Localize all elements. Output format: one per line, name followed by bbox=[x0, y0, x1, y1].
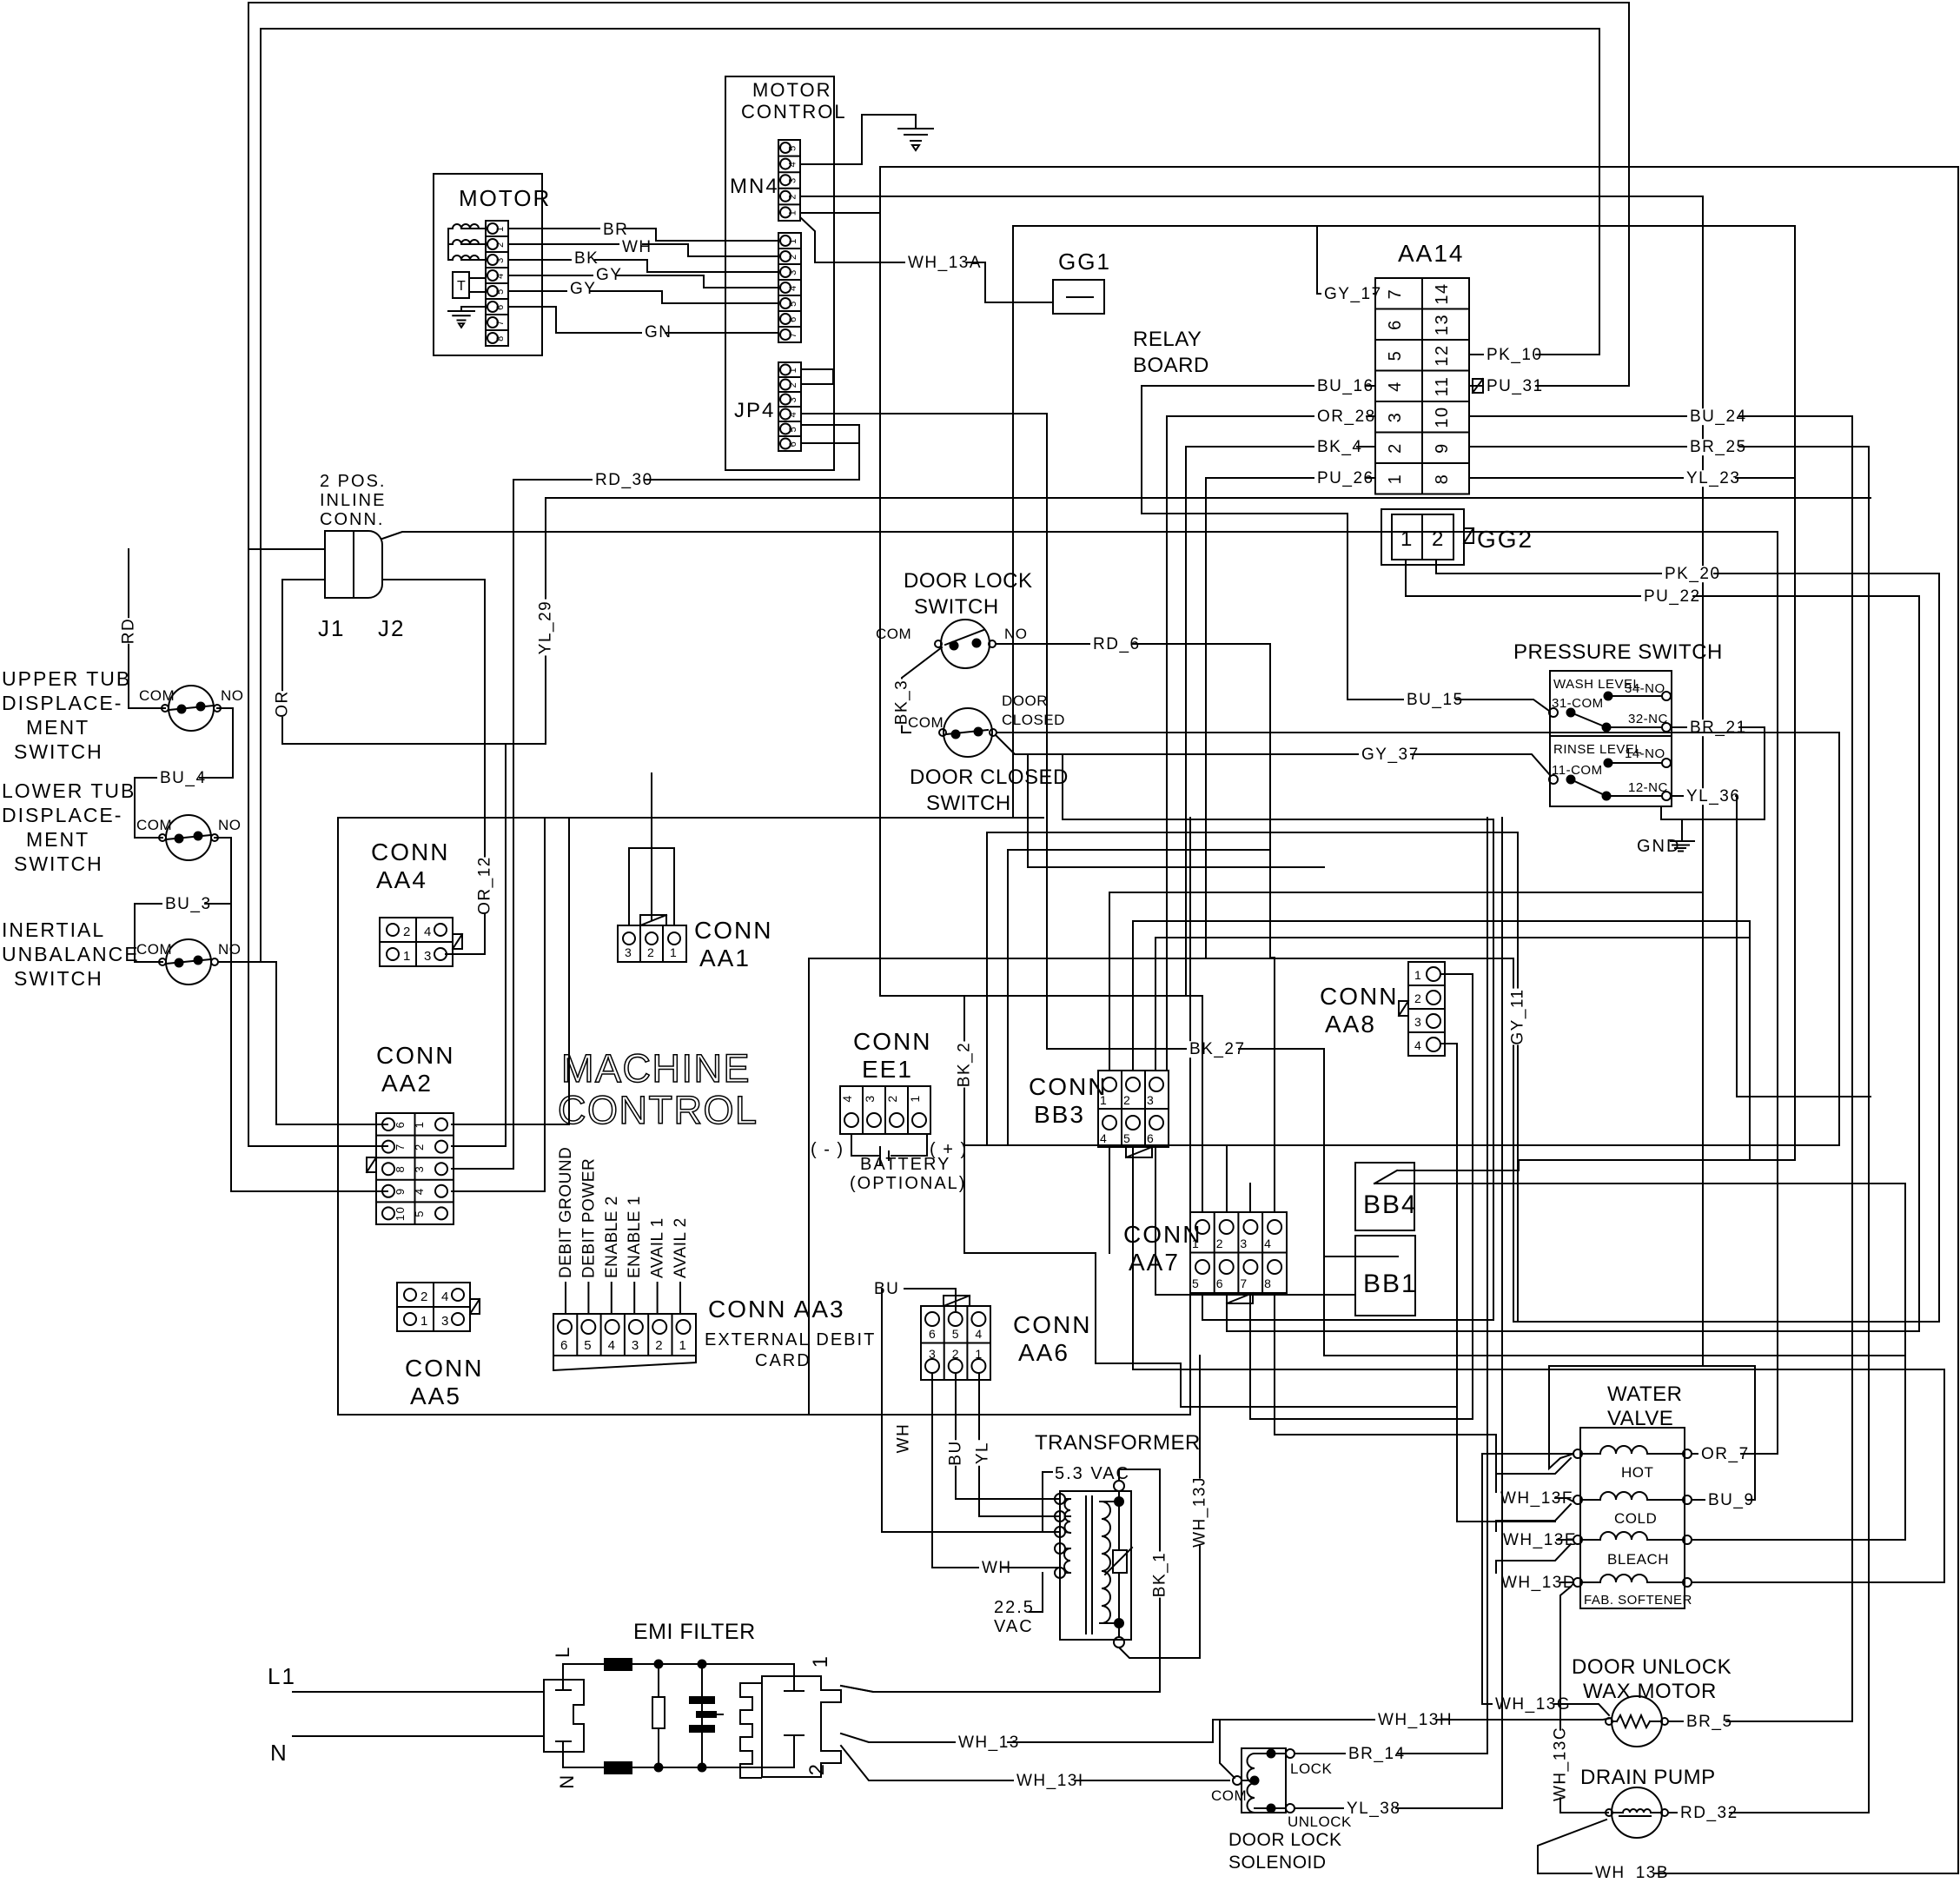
svg-text:BB1: BB1 bbox=[1363, 1270, 1418, 1298]
connector AA5 bbox=[397, 1283, 470, 1331]
svg-text:1: 1 bbox=[788, 237, 798, 244]
svg-text:RD_6: RD_6 bbox=[1093, 635, 1141, 653]
wire WH_13I out2 lower bbox=[841, 1746, 1229, 1780]
svg-text:4: 4 bbox=[1414, 1038, 1422, 1052]
svg-text:(OPTIONAL): (OPTIONAL) bbox=[850, 1174, 966, 1193]
drain pump bbox=[1612, 1787, 1662, 1838]
svg-text:31-COM: 31-COM bbox=[1552, 696, 1604, 711]
connector AA7 bbox=[1190, 1212, 1287, 1293]
svg-text:MENT: MENT bbox=[26, 828, 89, 851]
svg-text:CARD: CARD bbox=[755, 1351, 811, 1370]
svg-text:INLINE: INLINE bbox=[320, 491, 386, 510]
svg-text:4: 4 bbox=[441, 1290, 450, 1304]
svg-text:PU_26: PU_26 bbox=[1317, 469, 1374, 487]
transformer box bbox=[1060, 1491, 1131, 1640]
svg-text:MENT: MENT bbox=[26, 716, 89, 739]
svg-text:ENABLE 1: ENABLE 1 bbox=[626, 1196, 644, 1278]
svg-text:MOTOR: MOTOR bbox=[459, 185, 551, 211]
svg-text:1: 1 bbox=[788, 367, 798, 374]
wire WH_13 out2 bbox=[841, 1720, 1213, 1742]
motor thermal protector T bbox=[453, 272, 469, 298]
wire GY_17 AA14 pin7 bbox=[1013, 226, 1375, 818]
water valve hot coil bbox=[1573, 1449, 1582, 1458]
svg-text:SWITCH: SWITCH bbox=[14, 852, 103, 875]
wire H1103 left branch bbox=[809, 958, 1206, 1415]
svg-text:2: 2 bbox=[1216, 1237, 1224, 1250]
svg-text:RD_30: RD_30 bbox=[595, 471, 653, 489]
transformer primary coils bbox=[1065, 1499, 1071, 1533]
svg-text:22.5: 22.5 bbox=[994, 1598, 1035, 1617]
svg-text:7: 7 bbox=[788, 331, 798, 338]
svg-text:14: 14 bbox=[1433, 282, 1452, 304]
wire WH to transformer pin3 bbox=[882, 1289, 1060, 1532]
svg-text:1: 1 bbox=[1192, 1237, 1200, 1250]
svg-text:4: 4 bbox=[424, 925, 433, 939]
svg-text:DISPLACE-: DISPLACE- bbox=[2, 692, 122, 714]
svg-text:4: 4 bbox=[975, 1327, 983, 1341]
motor control box bbox=[725, 76, 834, 470]
svg-text:2: 2 bbox=[655, 1338, 664, 1353]
wire H1146 to AA7 pin1 bbox=[964, 996, 1202, 1212]
svg-text:3: 3 bbox=[1147, 1093, 1155, 1107]
svg-text:OR_12: OR_12 bbox=[475, 856, 493, 915]
machine control board box bbox=[338, 818, 1190, 1415]
svg-text:2: 2 bbox=[647, 945, 655, 959]
svg-text:3: 3 bbox=[413, 1165, 426, 1173]
wire GY_37 door closed to 11-COM bbox=[997, 736, 1551, 776]
svg-text:OR_28: OR_28 bbox=[1317, 408, 1376, 426]
svg-text:14-NO: 14-NO bbox=[1625, 746, 1665, 761]
wire BB4 right bus bbox=[1374, 1183, 1905, 1184]
svg-text:BU_4: BU_4 bbox=[160, 769, 207, 787]
svg-text:BU_15: BU_15 bbox=[1407, 691, 1464, 709]
svg-text:LOWER TUB: LOWER TUB bbox=[2, 779, 136, 802]
wire MN4 pin2 long bbox=[800, 196, 1703, 1366]
svg-text:L1: L1 bbox=[268, 1663, 296, 1689]
svg-text:BK_4: BK_4 bbox=[1317, 438, 1362, 456]
transformer secondary coil bbox=[1102, 1502, 1110, 1623]
svg-text:5: 5 bbox=[1386, 350, 1405, 361]
svg-text:GG1: GG1 bbox=[1058, 249, 1111, 275]
svg-text:1: 1 bbox=[1386, 474, 1405, 485]
svg-text:EMI FILTER: EMI FILTER bbox=[633, 1620, 756, 1644]
svg-text:PRESSURE SWITCH: PRESSURE SWITCH bbox=[1513, 640, 1723, 664]
component GG1 box bbox=[1053, 280, 1104, 314]
door closed switch bbox=[944, 708, 992, 757]
svg-text:J1: J1 bbox=[318, 615, 345, 641]
transformer varistor bbox=[1113, 1550, 1127, 1573]
wire BU AA6 pin2 to transformer bbox=[956, 1373, 1060, 1499]
solenoid coil bbox=[1248, 1754, 1255, 1813]
wire J2 lower to OR_12 riser bbox=[382, 580, 485, 954]
wire BU bracket to AA6 pin5 bbox=[904, 1289, 956, 1312]
EMI input connector bbox=[544, 1680, 584, 1752]
svg-text:SWITCH: SWITCH bbox=[14, 740, 103, 763]
wire YL_29 bus right bbox=[546, 497, 1871, 499]
wire WH_13A MN4 pin1 to GG1 bbox=[800, 217, 1053, 302]
svg-text:2: 2 bbox=[1123, 1093, 1131, 1107]
svg-text:GY: GY bbox=[570, 280, 596, 298]
svg-text:3: 3 bbox=[1240, 1237, 1248, 1250]
svg-text:UPPER TUB: UPPER TUB bbox=[2, 667, 131, 690]
connector BB3 bbox=[1098, 1071, 1169, 1147]
svg-text:WH_13H: WH_13H bbox=[1378, 1711, 1453, 1729]
svg-text:7: 7 bbox=[394, 1143, 407, 1150]
svg-text:COM: COM bbox=[139, 687, 175, 704]
svg-text:CLOSED: CLOSED bbox=[1002, 712, 1065, 728]
svg-text:OR_7: OR_7 bbox=[1701, 1445, 1750, 1463]
svg-text:DEBIT POWER: DEBIT POWER bbox=[579, 1158, 598, 1278]
svg-text:3: 3 bbox=[625, 945, 632, 959]
svg-text:3: 3 bbox=[424, 949, 433, 964]
svg-text:GY: GY bbox=[596, 266, 622, 284]
wire BR_5 label bbox=[1684, 1714, 1725, 1730]
svg-text:5: 5 bbox=[413, 1210, 426, 1217]
svg-text:3: 3 bbox=[632, 1338, 640, 1353]
svg-text:12: 12 bbox=[1433, 344, 1452, 366]
connector EE1 bbox=[840, 1086, 930, 1134]
svg-text:9: 9 bbox=[1433, 442, 1452, 454]
wire BK_1 bbox=[841, 1469, 1160, 1692]
wire JP4 pin4 to BK_27 chain bbox=[801, 414, 1047, 1049]
svg-text:4: 4 bbox=[495, 272, 506, 279]
svg-text:34-NO: 34-NO bbox=[1625, 681, 1665, 696]
svg-text:LOCK: LOCK bbox=[1290, 1760, 1332, 1777]
svg-text:3: 3 bbox=[863, 1094, 877, 1102]
connector AA8 bbox=[1408, 962, 1445, 1056]
wire MN4 pin4 to chassis ground bbox=[800, 115, 916, 164]
wire YL_36 from 12-NC bbox=[1671, 796, 1871, 1097]
svg-text:4: 4 bbox=[840, 1094, 854, 1102]
wire OR_28 AA14 pin3 bbox=[1167, 416, 1375, 1071]
svg-text:MOTOR: MOTOR bbox=[752, 79, 831, 101]
svg-text:OR: OR bbox=[273, 690, 291, 718]
svg-text:1: 1 bbox=[679, 1338, 688, 1353]
svg-text:DOOR UNLOCK: DOOR UNLOCK bbox=[1572, 1655, 1732, 1679]
wire GN motor pin6 bbox=[508, 307, 778, 333]
transformer secondary terminals bbox=[1115, 1497, 1123, 1506]
wax motor bbox=[1612, 1696, 1662, 1747]
svg-text:2: 2 bbox=[1386, 442, 1405, 454]
wire BK_2 bbox=[880, 996, 1181, 1407]
svg-text:WATER: WATER bbox=[1607, 1382, 1683, 1406]
motor box bbox=[434, 174, 542, 355]
svg-text:AA1: AA1 bbox=[699, 945, 751, 971]
svg-text:WH: WH bbox=[894, 1423, 912, 1454]
wire fab softener WH_13D stub bbox=[1555, 1581, 1573, 1583]
svg-text:N: N bbox=[556, 1774, 578, 1788]
inductor N black bar bbox=[605, 1762, 632, 1774]
svg-text:BB3: BB3 bbox=[1034, 1101, 1085, 1128]
wire WH_13H branch to solenoid COM bbox=[1220, 1720, 1235, 1778]
svg-text:BK: BK bbox=[574, 249, 599, 268]
svg-text:AA7: AA7 bbox=[1129, 1249, 1180, 1276]
door lock solenoid box bbox=[1242, 1748, 1286, 1813]
svg-text:AA4: AA4 bbox=[376, 866, 427, 893]
svg-text:AVAIL 2: AVAIL 2 bbox=[672, 1217, 690, 1278]
svg-text:1: 1 bbox=[413, 1121, 426, 1129]
component GG2 bbox=[1381, 509, 1464, 565]
wire JP4 pins1-2 bridge bbox=[801, 369, 833, 384]
svg-text:1: 1 bbox=[670, 945, 678, 959]
svg-text:PK_20: PK_20 bbox=[1665, 565, 1721, 583]
svg-text:BK_1: BK_1 bbox=[1150, 1552, 1169, 1597]
water valve box bbox=[1580, 1428, 1685, 1608]
motor connector strip 8-pin bbox=[486, 221, 508, 346]
wire OR_7 bbox=[1692, 1453, 1725, 1455]
wire BB3 pin3 riser bbox=[1155, 938, 1750, 1071]
svg-text:CONN AA3: CONN AA3 bbox=[708, 1296, 845, 1323]
wire bleach right bbox=[1692, 1539, 1905, 1541]
svg-text:9: 9 bbox=[394, 1187, 407, 1195]
svg-text:4: 4 bbox=[788, 411, 798, 418]
BB4 internal switch bbox=[1374, 1170, 1397, 1184]
svg-text:2: 2 bbox=[805, 1763, 829, 1776]
wire BR_14 bbox=[1295, 818, 1487, 1754]
upper tub displacement switch bbox=[169, 686, 214, 731]
svg-text:SWITCH: SWITCH bbox=[926, 792, 1011, 815]
wire WH_13B bbox=[1538, 1820, 1958, 1873]
connector MC 7-pin bbox=[778, 233, 801, 342]
svg-text:GY_17: GY_17 bbox=[1324, 285, 1382, 303]
svg-text:HOT: HOT bbox=[1621, 1464, 1653, 1481]
svg-text:SOLENOID: SOLENOID bbox=[1228, 1853, 1327, 1873]
svg-text:NO: NO bbox=[221, 687, 244, 704]
svg-text:BU: BU bbox=[946, 1440, 964, 1465]
svg-text:UNBALANCE: UNBALANCE bbox=[2, 943, 140, 965]
svg-text:DOOR LOCK: DOOR LOCK bbox=[904, 569, 1033, 593]
connector AA14 bbox=[1375, 278, 1469, 494]
wire PK_10 inner loop (AA14 pin 12 to inertial switch) bbox=[218, 29, 1599, 962]
wire bus y1318 bbox=[964, 733, 1839, 1145]
svg-text:COM: COM bbox=[876, 626, 911, 642]
svg-text:CONTROL: CONTROL bbox=[558, 1088, 758, 1132]
svg-text:DRAIN PUMP: DRAIN PUMP bbox=[1580, 1766, 1716, 1789]
wire PU_22 GG2 pin1 bbox=[1227, 560, 1919, 1331]
svg-text:1: 1 bbox=[403, 949, 412, 964]
wire EMI bottom rail bbox=[563, 1752, 794, 1767]
svg-text:EE1: EE1 bbox=[862, 1056, 913, 1083]
inductor L black bar bbox=[605, 1659, 632, 1670]
svg-text:GND: GND bbox=[1637, 837, 1680, 856]
svg-text:WH_13I: WH_13I bbox=[1016, 1772, 1084, 1790]
svg-text:EXTERNAL DEBIT: EXTERNAL DEBIT bbox=[705, 1330, 876, 1349]
svg-text:1: 1 bbox=[495, 225, 506, 232]
wire WH_13C bbox=[1560, 1587, 1608, 1813]
wire BU_15 to 31-COM bbox=[1347, 514, 1549, 711]
svg-text:T: T bbox=[457, 279, 467, 294]
svg-text:COM: COM bbox=[136, 817, 172, 833]
component BB4 box bbox=[1355, 1163, 1414, 1230]
svg-text:BU_24: BU_24 bbox=[1690, 408, 1747, 426]
svg-text:CONN: CONN bbox=[1029, 1073, 1107, 1100]
svg-text:VAC: VAC bbox=[994, 1617, 1034, 1636]
BB1 wire stub bbox=[1355, 1256, 1398, 1257]
svg-text:2: 2 bbox=[788, 253, 798, 260]
svg-text:BOARD: BOARD bbox=[1133, 354, 1209, 377]
svg-text:BR_21: BR_21 bbox=[1690, 719, 1747, 737]
water valve bleach coil bbox=[1573, 1535, 1582, 1544]
wire EMI out1 diag bbox=[841, 1686, 873, 1692]
wire BR_25 AA14 pin9 to drain pump RD_32 bbox=[1469, 447, 1869, 1813]
svg-text:COLD: COLD bbox=[1614, 1510, 1657, 1527]
connector AA2 bbox=[376, 1113, 454, 1224]
wire BU_3 lower NO to inertial COM bbox=[135, 838, 231, 962]
svg-text:COM: COM bbox=[908, 714, 944, 731]
wire WH_13E chain cold to bleach bbox=[1496, 1504, 1571, 1531]
svg-text:WH_13A: WH_13A bbox=[908, 254, 982, 272]
wire WH_13F chain hot to cold bbox=[1496, 1458, 1571, 1474]
svg-text:2: 2 bbox=[885, 1094, 899, 1102]
svg-text:6: 6 bbox=[1386, 319, 1405, 330]
wire AA7 pin2 riser bbox=[1226, 1145, 1228, 1212]
svg-text:6: 6 bbox=[788, 441, 798, 448]
svg-text:BU_16: BU_16 bbox=[1317, 377, 1374, 395]
wire WH motor pin2 bbox=[508, 244, 778, 256]
svg-text:BR_14: BR_14 bbox=[1348, 1745, 1406, 1763]
svg-text:32-NC: 32-NC bbox=[1628, 712, 1668, 726]
EMI resistor bbox=[655, 1661, 663, 1668]
wire BU_16 AA14 pin4 to BU_15 bbox=[1142, 386, 1375, 514]
svg-text:COM: COM bbox=[1211, 1787, 1247, 1804]
wire RD_32 label bbox=[1678, 1805, 1729, 1821]
svg-text:BR_25: BR_25 bbox=[1690, 438, 1747, 456]
svg-text:2: 2 bbox=[1414, 991, 1422, 1005]
wire PU_26 AA14 pin1 bbox=[1206, 478, 1513, 1160]
wire BB3 pin1 riser bbox=[1109, 892, 1703, 1071]
svg-text:WH_13B: WH_13B bbox=[1595, 1864, 1669, 1879]
connector AA1 bbox=[618, 925, 686, 962]
svg-text:1: 1 bbox=[1414, 968, 1422, 982]
latch AA14 pin11 bbox=[1473, 379, 1483, 393]
svg-text:COM: COM bbox=[136, 941, 172, 958]
svg-text:3: 3 bbox=[441, 1314, 450, 1329]
wire YL_38 bbox=[1295, 818, 1502, 1808]
svg-text:AA14: AA14 bbox=[1398, 240, 1465, 267]
svg-text:SWITCH: SWITCH bbox=[14, 967, 103, 990]
svg-text:1: 1 bbox=[420, 1314, 429, 1329]
svg-text:5: 5 bbox=[788, 426, 798, 433]
svg-text:YL_29: YL_29 bbox=[536, 600, 554, 654]
svg-text:PU_31: PU_31 bbox=[1487, 377, 1544, 395]
wire relay board left vertical x=1013 bbox=[879, 167, 881, 996]
svg-text:YL_23: YL_23 bbox=[1686, 469, 1740, 487]
svg-text:5: 5 bbox=[584, 1338, 593, 1353]
svg-text:10: 10 bbox=[1433, 406, 1452, 428]
connector MN4 5-pin bbox=[778, 140, 800, 221]
svg-text:BK_27: BK_27 bbox=[1189, 1040, 1246, 1058]
svg-text:2: 2 bbox=[495, 241, 506, 248]
svg-text:6: 6 bbox=[560, 1338, 569, 1353]
wire J2 top to OR_7 via right bus bbox=[382, 532, 1778, 1454]
svg-text:YL_38: YL_38 bbox=[1347, 1800, 1400, 1818]
connector J1 J2 bbox=[325, 531, 382, 598]
svg-text:CONN: CONN bbox=[1013, 1311, 1091, 1338]
svg-text:1: 1 bbox=[788, 209, 798, 216]
wire PK_10 label bbox=[1484, 347, 1535, 363]
svg-text:BR_5: BR_5 bbox=[1686, 1713, 1733, 1731]
wire PU_31 label bbox=[1484, 378, 1535, 395]
svg-text:RD: RD bbox=[119, 618, 137, 644]
svg-text:3: 3 bbox=[788, 396, 798, 403]
svg-text:8: 8 bbox=[1264, 1276, 1272, 1290]
EMI choke comb bbox=[740, 1683, 761, 1778]
wire EMI top rail bbox=[563, 1664, 794, 1680]
svg-text:BLEACH: BLEACH bbox=[1607, 1551, 1669, 1568]
transformer 22.5 VAC bracket bbox=[1030, 1573, 1043, 1612]
connector AA4 bbox=[380, 918, 453, 966]
svg-text:WH_13D: WH_13D bbox=[1501, 1574, 1576, 1592]
wire WH_13J bbox=[1119, 1648, 1200, 1658]
svg-text:5: 5 bbox=[1123, 1131, 1131, 1145]
svg-text:7: 7 bbox=[495, 319, 506, 326]
EMI capacitors bbox=[699, 1661, 706, 1668]
svg-text:CONTROL: CONTROL bbox=[741, 101, 847, 123]
wire YL_29 bbox=[545, 498, 546, 744]
wire BK motor pin3 bbox=[508, 260, 778, 272]
svg-text:DOOR LOCK: DOOR LOCK bbox=[1228, 1830, 1342, 1850]
water valve cold coil bbox=[1573, 1495, 1582, 1504]
svg-text:6: 6 bbox=[788, 315, 798, 322]
svg-text:RD_32: RD_32 bbox=[1680, 1804, 1738, 1822]
svg-text:BU: BU bbox=[874, 1280, 899, 1298]
solenoid terminals bbox=[1268, 1750, 1275, 1758]
wire H1619 BK_2 branch bbox=[1181, 1406, 1457, 1408]
svg-text:5: 5 bbox=[788, 144, 798, 151]
wire GY motor pin5 bbox=[508, 291, 778, 303]
svg-text:CONN: CONN bbox=[376, 1042, 454, 1069]
wire x318 to AA2 pin6 bbox=[276, 962, 387, 1124]
svg-text:CONN: CONN bbox=[853, 1028, 931, 1055]
svg-text:L: L bbox=[552, 1646, 573, 1658]
wire branch h978 bbox=[1008, 850, 1270, 1145]
svg-text:NO: NO bbox=[218, 941, 242, 958]
svg-text:4: 4 bbox=[608, 1338, 617, 1353]
svg-text:AA8: AA8 bbox=[1325, 1011, 1376, 1038]
svg-text:4: 4 bbox=[788, 284, 798, 291]
svg-text:GY_37: GY_37 bbox=[1361, 746, 1420, 764]
wire AA2 pin4 riser bbox=[452, 818, 545, 1191]
chassis ground symbol bbox=[898, 128, 933, 129]
svg-text:YL: YL bbox=[973, 1442, 991, 1464]
svg-text:4: 4 bbox=[1264, 1237, 1272, 1250]
svg-text:CONN.: CONN. bbox=[320, 510, 384, 529]
svg-text:NO: NO bbox=[218, 817, 242, 833]
wire GY motor pin4 bbox=[508, 275, 778, 288]
svg-text:BK_2: BK_2 bbox=[955, 1042, 973, 1087]
svg-text:6: 6 bbox=[1147, 1131, 1155, 1145]
svg-text:DOOR CLOSED: DOOR CLOSED bbox=[910, 766, 1069, 789]
svg-text:7: 7 bbox=[1240, 1276, 1248, 1290]
wire AA2 pin1 riser bbox=[452, 818, 569, 1124]
svg-text:6: 6 bbox=[1216, 1276, 1224, 1290]
svg-text:3: 3 bbox=[1386, 412, 1405, 423]
wire AA8 pin1 bbox=[1440, 974, 1473, 1419]
svg-text:2 POS.: 2 POS. bbox=[320, 472, 386, 491]
connector JP4 6-pin bbox=[778, 362, 801, 451]
battery optional bbox=[851, 1134, 878, 1156]
svg-text:CONN: CONN bbox=[1320, 983, 1398, 1010]
wire PK_20 GG2 pin2 bbox=[1436, 560, 1939, 1322]
svg-text:VALVE: VALVE bbox=[1607, 1407, 1673, 1430]
pressure switch box bbox=[1550, 671, 1672, 806]
svg-text:AA6: AA6 bbox=[1018, 1339, 1069, 1366]
transformer 5.3 VAC bracket bbox=[1042, 1472, 1043, 1532]
wire AA2 pin2 riser bbox=[452, 744, 506, 1146]
wire BB3 pin5 down to fab softener bus bbox=[1133, 1147, 1944, 1582]
svg-text:UNLOCK: UNLOCK bbox=[1288, 1813, 1352, 1830]
svg-text:BR: BR bbox=[603, 221, 628, 239]
